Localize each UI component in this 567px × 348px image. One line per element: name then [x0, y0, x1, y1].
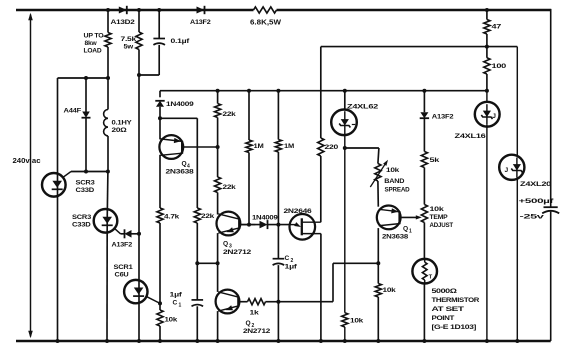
svg-text:5000Ω: 5000Ω [432, 288, 457, 295]
resistor 100 [484, 47, 507, 93]
svg-text:5k: 5k [430, 157, 440, 164]
svg-text:10k: 10k [350, 318, 364, 325]
svg-text:SCR1: SCR1 [114, 264, 134, 271]
SCR SCR3 C33D lower [72, 172, 121, 342]
svg-text:1M: 1M [284, 143, 295, 150]
svg-text:22k: 22k [201, 213, 215, 220]
diode 1N4009 lower [239, 215, 290, 230]
wire Q1 base to pot wiper [400, 215, 422, 219]
capacitor C2 1uf [273, 225, 298, 341]
wire zener to rheostat y=148 [345, 148, 379, 164]
resistor 220 [318, 47, 339, 223]
svg-text:[G-E 1D103]: [G-E 1D103] [432, 324, 477, 331]
svg-text:UP TO: UP TO [84, 33, 104, 40]
rheostat 10k BAND SPREAD [370, 160, 410, 194]
diode A13F2 gate [112, 229, 142, 248]
capacitor 500uf 25v [519, 198, 560, 221]
svg-text:J: J [505, 167, 509, 174]
svg-text:A13F2: A13F2 [190, 19, 211, 26]
svg-text:AT SET: AT SET [432, 306, 464, 313]
resistor 5k [421, 152, 439, 205]
svg-text:1N4009: 1N4009 [166, 101, 194, 108]
svg-text:-25v: -25v [520, 214, 545, 221]
svg-text:10k: 10k [386, 167, 400, 174]
svg-text:BAND: BAND [384, 178, 404, 185]
resistor 4.7k [157, 208, 180, 305]
wire UJT base1 drop [320, 234, 322, 341]
transistor 2N2646 unijunction [284, 208, 321, 240]
svg-text:5w: 5w [124, 44, 135, 51]
wire bottom return rail [16, 340, 551, 343]
svg-text:+500µf: +500µf [519, 198, 555, 205]
svg-text:SCR3: SCR3 [72, 214, 92, 221]
wire Q2 base to Q1 collector [278, 261, 380, 301]
svg-text:J: J [492, 113, 496, 120]
svg-text:POINT: POINT [432, 315, 455, 322]
svg-text:Z4XL62: Z4XL62 [347, 104, 379, 111]
svg-text:Z4XL20: Z4XL20 [520, 181, 552, 188]
resistor 1M first [246, 89, 264, 227]
zener Z4XL62 [331, 89, 379, 341]
svg-text:1M: 1M [254, 143, 265, 150]
svg-text:A13F2: A13F2 [432, 114, 454, 121]
node 240v ac source line [13, 13, 41, 338]
svg-text:10k: 10k [165, 317, 178, 324]
capacitor 0.1uf [137, 8, 190, 77]
svg-text:C6U: C6U [115, 272, 129, 279]
svg-text:C33D: C33D [76, 187, 95, 194]
svg-text:2N2712: 2N2712 [223, 249, 252, 256]
wire Q4 top to 22k branch [160, 118, 197, 208]
transistor Q2 2N2712 [216, 263, 271, 341]
wire top supply rail [16, 9, 551, 12]
svg-text:A44F: A44F [64, 108, 82, 115]
svg-text:THERMISTOR: THERMISTOR [432, 297, 480, 304]
svg-text:Q: Q [223, 241, 228, 248]
SCR SCR3 C33D upper [42, 78, 95, 341]
svg-text:1k: 1k [250, 310, 260, 317]
svg-text:C: C [285, 255, 290, 262]
resistor 10k mid [342, 146, 364, 327]
svg-text:LOAD: LOAD [84, 47, 102, 54]
resistor load (UP TO 8kw LOAD) [84, 8, 112, 78]
svg-text:47: 47 [492, 24, 502, 31]
svg-text:240v ac: 240v ac [13, 156, 41, 165]
diode A13F2 right [420, 89, 454, 152]
svg-text:0.1HY: 0.1HY [112, 120, 133, 127]
svg-text:22k: 22k [223, 111, 237, 118]
diode A13F2 (line) [190, 6, 211, 26]
svg-text:A13F2: A13F2 [112, 242, 133, 249]
diode A44F [64, 78, 91, 172]
svg-text:7.5k: 7.5k [121, 36, 137, 43]
wire SCR3 gate bus y=171.5 [71, 170, 110, 174]
thermistor 5000ohm [412, 259, 479, 341]
svg-text:ADJUST: ADJUST [430, 222, 454, 229]
diode 1N4009 upper [155, 91, 194, 121]
svg-text:100: 100 [492, 63, 507, 70]
capacitor C1 1uf [170, 261, 204, 341]
svg-text:1: 1 [179, 303, 182, 309]
svg-text:TEMP: TEMP [430, 214, 449, 221]
resistor 22k upper [215, 89, 237, 149]
transistor Q3 2N2712 [217, 212, 256, 264]
inductor 0.1HY 20ohm [104, 78, 133, 172]
wire feed y=46.6 [321, 45, 518, 49]
svg-text:Q: Q [403, 226, 408, 233]
zener Z4XL20 [499, 47, 552, 341]
svg-text:8kw: 8kw [85, 40, 98, 47]
transistor Q1 2N3638 [377, 181, 412, 284]
svg-text:2N3638: 2N3638 [166, 169, 195, 176]
svg-text:C33D: C33D [72, 222, 91, 229]
SCR SCR1 C6U [114, 264, 161, 341]
svg-text:10k: 10k [383, 287, 397, 294]
svg-text:C: C [173, 300, 178, 307]
svg-text:2N3638: 2N3638 [382, 234, 409, 241]
resistor 47 [484, 8, 502, 47]
resistor 10k SCR1 gate [157, 303, 178, 341]
svg-text:A13D2: A13D2 [111, 19, 136, 26]
transistor Q4 2N3638 [159, 135, 217, 175]
svg-text:6.8K,5W: 6.8K,5W [250, 20, 281, 27]
wire Q4 emitter/collector drop x=160 [159, 118, 161, 208]
junction dots bottom rail [56, 339, 520, 343]
resistor 22k left [194, 208, 214, 263]
resistor 6.8K 5W [250, 7, 281, 27]
wire anode bus y=78 [58, 76, 111, 80]
svg-text:10k: 10k [430, 206, 445, 213]
wire y=263.3 link [197, 261, 219, 265]
svg-text:2N2646: 2N2646 [284, 208, 313, 215]
potentiometer 10k TEMP ADJUST [421, 205, 453, 259]
resistor 22k middle [215, 147, 237, 215]
svg-text:4.7k: 4.7k [164, 214, 180, 221]
svg-text:20Ω: 20Ω [112, 127, 128, 134]
resistor 10k lower (Q1 collector) [375, 284, 396, 342]
wire x=139 drop [138, 75, 140, 281]
svg-text:Q: Q [246, 320, 251, 327]
svg-text:22k: 22k [223, 184, 237, 191]
svg-text:SCR3: SCR3 [76, 180, 96, 187]
svg-text:220: 220 [325, 144, 339, 151]
svg-text:1: 1 [409, 229, 412, 235]
zener Z4XL16 [455, 91, 500, 341]
svg-text:Q: Q [182, 161, 187, 168]
svg-text:2N2712: 2N2712 [243, 328, 271, 335]
wire right edge rail [550, 9, 552, 341]
wire inner supply rail y=90.7 [160, 90, 487, 92]
resistor 7.5k 5w [121, 8, 143, 75]
svg-text:SPREAD: SPREAD [385, 186, 410, 193]
svg-text:Z4XL16: Z4XL16 [455, 133, 487, 140]
svg-text:1N4009: 1N4009 [252, 215, 278, 222]
svg-text:1µf: 1µf [170, 292, 183, 299]
resistor 1M second [275, 89, 295, 227]
resistor 1k [238, 299, 278, 317]
svg-text:1µf: 1µf [285, 264, 298, 271]
diode A13D2 [111, 6, 136, 26]
svg-text:0.1µf: 0.1µf [171, 38, 191, 45]
